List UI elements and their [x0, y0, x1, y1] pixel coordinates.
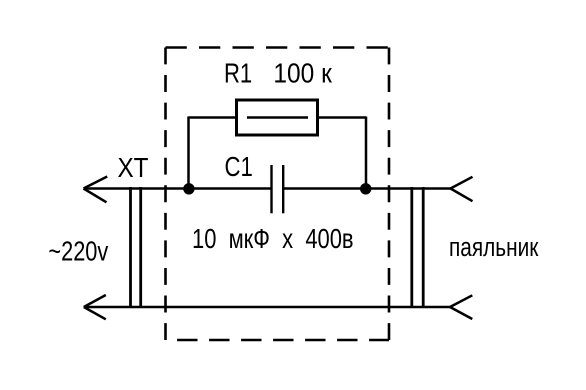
capacitor C1 left plate — [270, 165, 272, 213]
resistor R1 body — [237, 100, 318, 135]
wire bottom — [84, 306, 451, 309]
wire right vertical to node B — [365, 117, 368, 189]
wire left vertical to node A — [187, 117, 190, 189]
arrow top-right — [451, 177, 473, 201]
svg-text:XT: XT — [118, 152, 149, 183]
dashed enclosure box — [166, 48, 390, 341]
arrow bottom-left — [84, 295, 106, 319]
svg-text:~220v: ~220v — [48, 236, 108, 267]
capacitor C1 right plate — [282, 165, 284, 213]
resistor R1 inner line — [247, 116, 308, 119]
svg-text:паяльник: паяльник — [449, 234, 539, 262]
wire R1 right stub — [318, 116, 366, 119]
arrow top-left — [84, 177, 108, 203]
wire R1 left stub — [189, 116, 236, 119]
wire top-right segment — [283, 187, 450, 190]
svg-text:10 мкФ х 400в: 10 мкФ х 400в — [192, 223, 354, 254]
node B junction dot — [360, 183, 371, 194]
svg-text:R1: R1 — [224, 57, 252, 88]
svg-text:100 к: 100 к — [273, 57, 332, 88]
wire top-left segment — [84, 187, 272, 190]
connector right double bars — [412, 187, 423, 308]
svg-text:C1: C1 — [225, 151, 253, 182]
node A junction dot — [183, 183, 194, 194]
arrow bottom-right — [450, 295, 472, 319]
connector XT left double bars — [131, 187, 141, 308]
